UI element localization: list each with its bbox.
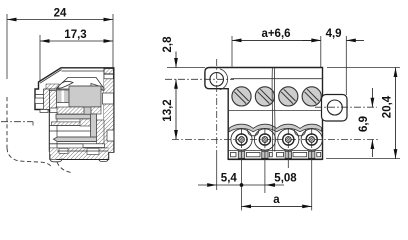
- svg-text:5,08: 5,08: [274, 173, 297, 185]
- svg-text:4,9: 4,9: [326, 28, 342, 40]
- svg-text:20,4: 20,4: [381, 95, 393, 118]
- svg-text:a+6,6: a+6,6: [261, 28, 290, 40]
- svg-text:13,2: 13,2: [162, 99, 174, 121]
- svg-text:2,8: 2,8: [162, 36, 174, 53]
- svg-text:6,9: 6,9: [358, 116, 370, 132]
- svg-text:17,3: 17,3: [64, 29, 86, 41]
- svg-text:a: a: [273, 194, 280, 206]
- svg-text:24: 24: [54, 8, 67, 20]
- svg-text:5,4: 5,4: [221, 173, 238, 185]
